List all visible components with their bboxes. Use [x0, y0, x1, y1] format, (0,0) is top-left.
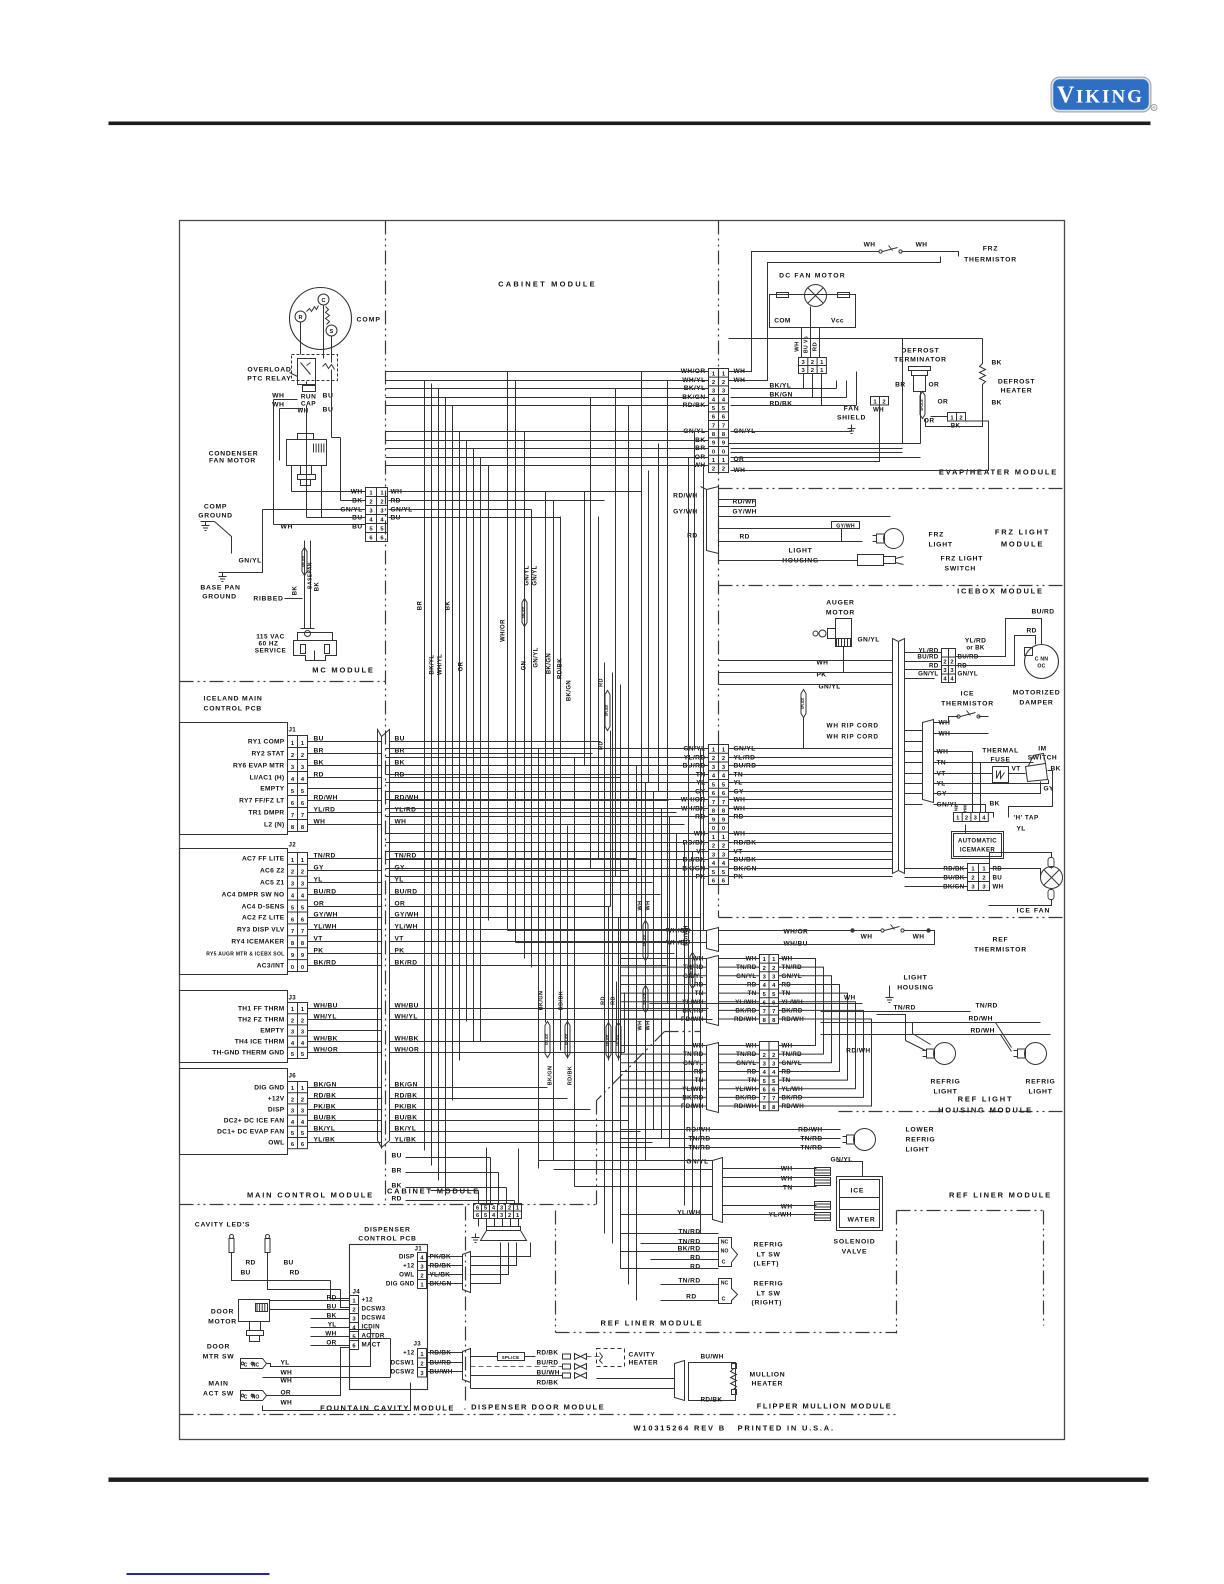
svg-text:J1: J1 — [415, 1246, 423, 1253]
svg-text:NC: NC — [721, 1240, 729, 1246]
svg-text:BU: BU — [392, 1153, 402, 1160]
svg-text:TN/RD: TN/RD — [894, 1005, 916, 1012]
svg-text:7: 7 — [763, 1009, 766, 1015]
svg-text:2: 2 — [291, 753, 294, 759]
svg-text:2: 2 — [301, 870, 304, 876]
svg-text:WH RIP CORD: WH RIP CORD — [827, 734, 879, 741]
svg-text:NO: NO — [252, 1395, 260, 1401]
svg-text:CONTROL PCB: CONTROL PCB — [204, 706, 263, 713]
svg-text:WH: WH — [861, 934, 873, 941]
svg-text:2: 2 — [380, 500, 383, 506]
svg-text:FRZ: FRZ — [983, 246, 999, 253]
svg-text:REF LINER MODULE: REF LINER MODULE — [949, 1191, 1052, 1200]
svg-text:RD: RD — [929, 663, 939, 670]
svg-text:GN/YL: GN/YL — [831, 1157, 853, 1164]
svg-text:7: 7 — [291, 813, 294, 819]
svg-text:WH: WH — [913, 934, 925, 941]
svg-text:BK: BK — [293, 586, 299, 596]
svg-text:J3: J3 — [414, 1341, 422, 1348]
svg-text:NO: NO — [721, 1249, 729, 1255]
svg-text:0: 0 — [722, 826, 725, 832]
svg-text:2: 2 — [882, 399, 885, 405]
svg-text:. DISPENSER DOOR MODULE: . DISPENSER DOOR MODULE — [464, 1403, 605, 1412]
svg-text:TN/RD: TN/RD — [678, 1239, 700, 1246]
svg-text:NC: NC — [252, 1363, 260, 1369]
svg-text:2: 2 — [959, 415, 962, 421]
svg-text:THERMISTOR: THERMISTOR — [974, 947, 1027, 954]
svg-text:RD/WH: RD/WH — [673, 493, 697, 500]
svg-text:AC5 Z1: AC5 Z1 — [260, 880, 285, 887]
svg-text:WH/OR: WH/OR — [501, 619, 507, 642]
svg-text:MTR SW: MTR SW — [203, 1354, 235, 1361]
svg-text:TH-GND THERM GND: TH-GND THERM GND — [212, 1050, 284, 1057]
svg-text:OR: OR — [929, 382, 940, 389]
svg-text:BK/GN: BK/GN — [547, 653, 553, 674]
svg-text:SPLICE: SPLICE — [302, 556, 306, 568]
svg-text:'H' TAP: 'H' TAP — [1014, 815, 1039, 822]
svg-text:RD/BK: RD/BK — [559, 991, 565, 1010]
svg-text:60 HZ: 60 HZ — [259, 641, 279, 648]
svg-text:WH RIP CORD: WH RIP CORD — [827, 723, 879, 730]
svg-text:HOUSING: HOUSING — [897, 985, 934, 992]
svg-text:6: 6 — [476, 1206, 479, 1212]
svg-text:VALVE: VALVE — [842, 1249, 868, 1256]
svg-text:EVAP/HEATER MODULE: EVAP/HEATER MODULE — [939, 468, 1058, 477]
svg-text:WH: WH — [864, 242, 876, 249]
svg-text:C NN: C NN — [1035, 657, 1049, 663]
svg-text:+12: +12 — [362, 1297, 374, 1304]
svg-text:RY3 DISP VLV: RY3 DISP VLV — [237, 927, 285, 934]
svg-text:VIKING: VIKING — [1057, 83, 1144, 109]
svg-text:LIGHT: LIGHT — [789, 548, 813, 555]
svg-text:2: 2 — [712, 380, 715, 386]
svg-text:SWITCH: SWITCH — [945, 566, 977, 573]
svg-text:1: 1 — [516, 1206, 519, 1212]
svg-text:7: 7 — [301, 813, 304, 819]
svg-text:LT SW: LT SW — [757, 1291, 781, 1298]
svg-text:DCSW2: DCSW2 — [391, 1369, 415, 1376]
svg-text:LI/AC1 (H): LI/AC1 (H) — [250, 775, 285, 782]
svg-text:SHIELD: SHIELD — [837, 415, 866, 422]
svg-text:SPLICE: SPLICE — [502, 1355, 520, 1360]
svg-text:HEATER: HEATER — [1001, 388, 1033, 395]
svg-text:LIGHT: LIGHT — [906, 1147, 930, 1154]
svg-text:WH: WH — [646, 901, 652, 911]
svg-text:RD/WH: RD/WH — [971, 1028, 995, 1035]
svg-text:AC7 FF LITE: AC7 FF LITE — [242, 856, 285, 863]
svg-text:0: 0 — [722, 449, 725, 455]
svg-text:SERVICE: SERVICE — [255, 648, 287, 655]
svg-text:GY/WH: GY/WH — [733, 509, 757, 516]
svg-text:2: 2 — [352, 1308, 355, 1314]
svg-text:R: R — [299, 315, 303, 321]
svg-text:TH2 FZ THRM: TH2 FZ THRM — [238, 1017, 285, 1024]
svg-text:RD: RD — [611, 996, 617, 1005]
svg-text:2: 2 — [369, 500, 372, 506]
svg-text:DIG GND: DIG GND — [386, 1281, 415, 1288]
svg-text:GN/YL: GN/YL — [533, 565, 539, 585]
svg-text:5: 5 — [484, 1213, 487, 1219]
svg-text:HOUSING MODULE: HOUSING MODULE — [938, 1106, 1033, 1115]
svg-text:0: 0 — [712, 826, 715, 832]
svg-text:SPLICE: SPLICE — [606, 1035, 610, 1047]
svg-text:THERMISTOR: THERMISTOR — [964, 257, 1017, 264]
svg-text:RY1 COMP: RY1 COMP — [248, 739, 285, 746]
svg-text:REFRIG: REFRIG — [931, 1079, 961, 1086]
svg-text:ACT SW: ACT SW — [203, 1391, 234, 1398]
svg-text:OR: OR — [938, 399, 949, 406]
svg-text:BU: BU — [284, 1260, 294, 1267]
svg-text:RY6 EVAP MTR: RY6 EVAP MTR — [233, 763, 284, 770]
svg-text:OC: OC — [1037, 664, 1045, 670]
svg-text:2: 2 — [772, 966, 775, 972]
svg-text:RD/BK: RD/BK — [537, 1350, 559, 1357]
svg-text:7: 7 — [291, 929, 294, 935]
svg-text:GY/WH: GY/WH — [836, 524, 855, 530]
svg-text:GN/YL: GN/YL — [958, 671, 978, 678]
svg-text:NC: NC — [721, 1281, 729, 1287]
svg-text:REF LINER MODULE: REF LINER MODULE — [601, 1319, 704, 1328]
svg-text:LIGHT: LIGHT — [934, 1089, 958, 1096]
svg-text:RD: RD — [686, 1294, 696, 1301]
svg-text:BU: BU — [241, 1270, 251, 1277]
svg-text:ICE: ICE — [961, 691, 975, 698]
svg-text:ICE FAN: ICE FAN — [1017, 908, 1051, 915]
svg-text:3: 3 — [500, 1206, 503, 1212]
svg-text:EMPTY: EMPTY — [260, 786, 285, 793]
svg-text:GN/YL: GN/YL — [534, 647, 540, 667]
svg-text:COMP: COMP — [357, 317, 381, 324]
svg-text:REF LIGHT: REF LIGHT — [958, 1095, 1014, 1104]
svg-text:RD: RD — [290, 1270, 300, 1277]
svg-text:2: 2 — [301, 1097, 304, 1103]
svg-text:S: S — [330, 329, 334, 335]
svg-text:7: 7 — [772, 1009, 775, 1015]
svg-text:IM: IM — [1038, 746, 1047, 753]
svg-text:RD/BK: RD/BK — [537, 1380, 559, 1387]
svg-text:THERMISTOR: THERMISTOR — [941, 701, 994, 708]
svg-text:GN: GN — [522, 661, 528, 671]
svg-text:Vcc: Vcc — [831, 318, 844, 325]
svg-text:FOUNTAIN CAVITY MODULE: FOUNTAIN CAVITY MODULE — [320, 1404, 455, 1413]
svg-text:BK: BK — [446, 601, 452, 611]
svg-text:AUGER: AUGER — [826, 600, 855, 607]
svg-text:RD/BK: RD/BK — [558, 658, 564, 679]
svg-text:YL: YL — [1017, 826, 1026, 833]
svg-text:WH: WH — [844, 995, 855, 1002]
svg-text:BK: BK — [990, 801, 1000, 808]
svg-text:2: 2 — [772, 1053, 775, 1059]
svg-text:DCSW3: DCSW3 — [362, 1306, 386, 1313]
svg-text:DIG GND: DIG GND — [254, 1085, 284, 1092]
svg-text:or BK: or BK — [966, 645, 985, 652]
svg-text:WH: WH — [781, 1204, 793, 1211]
svg-text:0: 0 — [291, 965, 294, 971]
svg-text:RD: RD — [740, 534, 750, 541]
svg-text:GROUND: GROUND — [202, 594, 236, 601]
svg-text:BR: BR — [895, 382, 905, 389]
svg-text:ICE: ICE — [851, 1188, 865, 1195]
svg-text:NI: NI — [954, 806, 959, 811]
svg-text:WH: WH — [638, 1021, 644, 1031]
svg-text:PTC RELAY: PTC RELAY — [247, 376, 291, 383]
svg-text:J1: J1 — [289, 727, 297, 734]
svg-text:115 VAC: 115 VAC — [256, 634, 285, 641]
svg-text:RY7 FF/FZ LT: RY7 FF/FZ LT — [239, 798, 284, 805]
svg-text:GN/YL: GN/YL — [858, 637, 880, 644]
svg-text:WH: WH — [281, 1370, 293, 1377]
svg-text:BU/WH: BU/WH — [701, 1354, 724, 1361]
svg-text:COMP: COMP — [204, 504, 227, 511]
svg-text:MACT: MACT — [362, 1342, 381, 1349]
svg-text:LIGHT: LIGHT — [1029, 1089, 1053, 1096]
svg-text:WH: WH — [993, 884, 1004, 891]
svg-text:SPLICE: SPLICE — [522, 607, 526, 619]
svg-text:2: 2 — [811, 368, 814, 374]
svg-text:OWL: OWL — [399, 1272, 414, 1279]
svg-text:WH: WH — [281, 1400, 293, 1407]
svg-text:WH: WH — [281, 1378, 293, 1385]
svg-text:SPLICE: SPLICE — [643, 935, 647, 947]
svg-text:SPLICE: SPLICE — [545, 1034, 549, 1046]
svg-text:OR: OR — [459, 661, 465, 671]
svg-text:2: 2 — [722, 756, 725, 762]
svg-text:FAN MOTOR: FAN MOTOR — [209, 458, 256, 465]
svg-text:GN/YL: GN/YL — [686, 1159, 708, 1166]
svg-text:RD/BK: RD/BK — [770, 401, 793, 408]
svg-text:DOOR: DOOR — [207, 1344, 230, 1351]
svg-text:7: 7 — [712, 423, 715, 429]
svg-text:2: 2 — [508, 1206, 511, 1212]
svg-text:WH: WH — [795, 341, 801, 351]
svg-text:C: C — [322, 298, 326, 304]
svg-text:DISP: DISP — [399, 1254, 415, 1261]
svg-text:RD: RD — [599, 741, 605, 750]
svg-text:YL: YL — [281, 1360, 290, 1367]
svg-text:2: 2 — [811, 360, 814, 366]
svg-text:COM: COM — [774, 318, 791, 325]
svg-text:1: 1 — [516, 1213, 519, 1219]
svg-text:L2 (N): L2 (N) — [264, 822, 284, 829]
svg-text:CONDENSER: CONDENSER — [209, 451, 259, 458]
svg-text:RY5 AUGR MTR & ICEBX SOL: RY5 AUGR MTR & ICEBX SOL — [206, 952, 284, 958]
svg-text:2: 2 — [291, 1018, 294, 1024]
svg-text:DISPENSER: DISPENSER — [364, 1227, 410, 1234]
svg-text:DC FAN MOTOR: DC FAN MOTOR — [779, 273, 846, 280]
svg-text:RY2 STAT: RY2 STAT — [251, 751, 284, 758]
svg-text:2: 2 — [950, 660, 953, 666]
svg-text:AC6 Z2: AC6 Z2 — [260, 868, 285, 875]
svg-text:TH1 FF THRM: TH1 FF THRM — [238, 1006, 285, 1013]
svg-text:BASE PAN: BASE PAN — [200, 585, 240, 592]
svg-text:AC4 D-SENS: AC4 D-SENS — [242, 904, 285, 911]
svg-text:LOWER: LOWER — [906, 1127, 935, 1134]
svg-text:AUTOMATIC: AUTOMATIC — [958, 839, 997, 845]
svg-text:7: 7 — [722, 800, 725, 806]
svg-text:SPLICE: SPLICE — [643, 993, 647, 1005]
svg-text:EMPTY: EMPTY — [260, 1028, 285, 1035]
svg-text:YL/WH: YL/WH — [677, 1210, 700, 1217]
svg-text:RD/WH: RD/WH — [969, 1016, 993, 1023]
svg-text:FLIPPER MULLION MODULE: FLIPPER MULLION MODULE — [757, 1402, 893, 1411]
svg-text:REFRIG: REFRIG — [754, 1242, 784, 1249]
svg-text:BK/GN: BK/GN — [548, 1066, 554, 1086]
svg-text:ICELAND MAIN: ICELAND MAIN — [204, 696, 263, 703]
svg-text:SOLENOID: SOLENOID — [834, 1239, 876, 1246]
svg-text:J6: J6 — [289, 1073, 297, 1080]
svg-text:5: 5 — [484, 1206, 487, 1212]
svg-text:RD: RD — [246, 1260, 256, 1267]
svg-text:FRZ: FRZ — [929, 532, 945, 539]
svg-text:DCSW1: DCSW1 — [391, 1360, 415, 1367]
svg-text:GROUND: GROUND — [198, 513, 232, 520]
svg-text:BK/GN: BK/GN — [567, 680, 573, 701]
svg-text:2: 2 — [982, 876, 985, 882]
svg-text:MAIN: MAIN — [208, 1381, 228, 1388]
svg-text:2: 2 — [763, 966, 766, 972]
svg-text:7: 7 — [301, 929, 304, 935]
svg-text:WH: WH — [873, 407, 884, 414]
svg-text:MULLION: MULLION — [750, 1372, 786, 1379]
svg-text:RD: RD — [1027, 628, 1037, 635]
svg-text:FRZ LIGHT: FRZ LIGHT — [995, 528, 1050, 537]
svg-text:HEATER: HEATER — [629, 1360, 659, 1367]
svg-text:RD/WH: RD/WH — [684, 925, 690, 946]
svg-text:SPLICE: SPLICE — [605, 705, 609, 717]
svg-text:DEFROST: DEFROST — [998, 379, 1036, 386]
svg-text:RD/BK: RD/BK — [701, 1397, 723, 1404]
svg-text:RD: RD — [601, 996, 607, 1005]
svg-text:2: 2 — [965, 816, 968, 822]
svg-text:RY4 ICEMAKER: RY4 ICEMAKER — [231, 939, 284, 946]
svg-text:ICEBOX MODULE: ICEBOX MODULE — [957, 587, 1044, 596]
svg-text:2: 2 — [712, 756, 715, 762]
svg-text:GN/YL: GN/YL — [239, 558, 262, 565]
svg-text:BK: BK — [992, 360, 1002, 367]
svg-text:J2: J2 — [289, 842, 297, 849]
svg-text:RUN: RUN — [301, 394, 317, 401]
svg-text:7: 7 — [712, 800, 715, 806]
svg-text:+12: +12 — [403, 1263, 415, 1270]
svg-text:RD/WH: RD/WH — [846, 1048, 870, 1055]
svg-text:REF: REF — [993, 937, 1009, 944]
svg-text:(LEFT): (LEFT) — [754, 1261, 780, 1268]
svg-text:DAMPER: DAMPER — [1019, 700, 1053, 707]
svg-text:SPLICE: SPLICE — [920, 399, 924, 411]
svg-text:CABINET MODULE: CABINET MODULE — [498, 280, 597, 289]
svg-text:VT: VT — [1012, 766, 1021, 773]
svg-text:BASEPAN: BASEPAN — [308, 562, 314, 589]
svg-text:+12V: +12V — [268, 1096, 285, 1103]
svg-text:TH4 ICE THRM: TH4 ICE THRM — [235, 1039, 285, 1046]
svg-text:REFRIG: REFRIG — [906, 1137, 936, 1144]
svg-text:CAP: CAP — [301, 401, 316, 408]
svg-text:AC4 DMPR SW NO: AC4 DMPR SW NO — [222, 892, 285, 899]
svg-text:AC3/INT: AC3/INT — [257, 963, 285, 970]
svg-text:7: 7 — [763, 1096, 766, 1102]
svg-text:GY/WH: GY/WH — [673, 509, 697, 516]
svg-text:2: 2 — [291, 1097, 294, 1103]
svg-text:OWL: OWL — [268, 1140, 284, 1147]
svg-text:GN/YL: GN/YL — [918, 671, 938, 678]
svg-text:HM: HM — [963, 805, 968, 812]
svg-text:C: C — [722, 1297, 726, 1303]
svg-text:SPLICE: SPLICE — [801, 698, 805, 710]
svg-text:6: 6 — [476, 1213, 479, 1219]
svg-text:RD/BK: RD/BK — [568, 1066, 574, 1085]
svg-text:2: 2 — [420, 1361, 423, 1367]
svg-text:LIGHT: LIGHT — [904, 975, 928, 982]
svg-text:7: 7 — [772, 1096, 775, 1102]
svg-text:FRZ LIGHT: FRZ LIGHT — [941, 556, 984, 563]
svg-text:0: 0 — [301, 965, 304, 971]
svg-text:BU/RD: BU/RD — [537, 1360, 559, 1367]
svg-text:BU: BU — [352, 524, 362, 531]
svg-text:2: 2 — [971, 876, 974, 882]
svg-text:BU/RD: BU/RD — [1032, 609, 1055, 616]
svg-text:RD: RD — [392, 1196, 402, 1203]
svg-text:OVERLOAD: OVERLOAD — [247, 367, 291, 374]
svg-text:DC1+ DC EVAP FAN: DC1+ DC EVAP FAN — [217, 1129, 284, 1136]
svg-text:7: 7 — [722, 423, 725, 429]
svg-text:WATER: WATER — [848, 1217, 876, 1224]
svg-text:BR: BR — [392, 1168, 402, 1175]
svg-text:AC2 FZ LITE: AC2 FZ LITE — [242, 915, 285, 922]
svg-text:BU/RD: BU/RD — [917, 654, 938, 661]
svg-text:SPLICE: SPLICE — [690, 965, 694, 977]
svg-text:MOTOR: MOTOR — [826, 610, 855, 617]
svg-text:WH: WH — [916, 242, 928, 249]
svg-text:YL/RD: YL/RD — [965, 638, 986, 645]
svg-text:2: 2 — [943, 660, 946, 666]
svg-text:C: C — [722, 1260, 726, 1266]
svg-text:WH: WH — [646, 1021, 652, 1031]
svg-text:FAN: FAN — [844, 406, 860, 413]
svg-text:BU: BU — [993, 875, 1003, 882]
svg-text:RD: RD — [690, 1255, 700, 1262]
svg-text:MC MODULE: MC MODULE — [312, 666, 374, 675]
svg-text:TN: TN — [783, 1185, 793, 1192]
svg-text:DOOR: DOOR — [211, 1309, 234, 1316]
svg-text:BK: BK — [315, 582, 321, 592]
svg-text:J3: J3 — [289, 995, 297, 1002]
svg-text:HEATER: HEATER — [752, 1381, 784, 1388]
svg-text:DEFROST: DEFROST — [901, 348, 939, 355]
svg-text:RD: RD — [813, 342, 819, 351]
svg-text:DCSW4: DCSW4 — [362, 1315, 386, 1322]
svg-text:(RIGHT): (RIGHT) — [752, 1300, 783, 1307]
svg-text:WH: WH — [351, 489, 363, 496]
svg-text:WH: WH — [272, 393, 284, 400]
svg-text:MODULE: MODULE — [1001, 540, 1044, 549]
svg-text:TR1 DMPR: TR1 DMPR — [248, 810, 284, 817]
svg-text:J4: J4 — [353, 1289, 361, 1296]
svg-text:TN/RD: TN/RD — [678, 1278, 700, 1285]
svg-text:BK/YL: BK/YL — [430, 655, 436, 675]
svg-text:2: 2 — [508, 1213, 511, 1219]
svg-text:2: 2 — [301, 1018, 304, 1024]
svg-text:MOTORIZED: MOTORIZED — [1013, 690, 1061, 697]
svg-text:DC2+ DC ICE FAN: DC2+ DC ICE FAN — [224, 1118, 285, 1125]
svg-text:2: 2 — [420, 1274, 423, 1280]
svg-text:3: 3 — [500, 1213, 503, 1219]
svg-text:CONTROL PCB: CONTROL PCB — [358, 1236, 417, 1243]
svg-text:CAVITY LED'S: CAVITY LED'S — [195, 1222, 251, 1229]
svg-text:REFRIG: REFRIG — [1026, 1079, 1056, 1086]
svg-text:MAIN CONTROL MODULE: MAIN CONTROL MODULE — [247, 1191, 374, 1200]
svg-text:2: 2 — [763, 1053, 766, 1059]
svg-text:BK: BK — [392, 1183, 402, 1190]
